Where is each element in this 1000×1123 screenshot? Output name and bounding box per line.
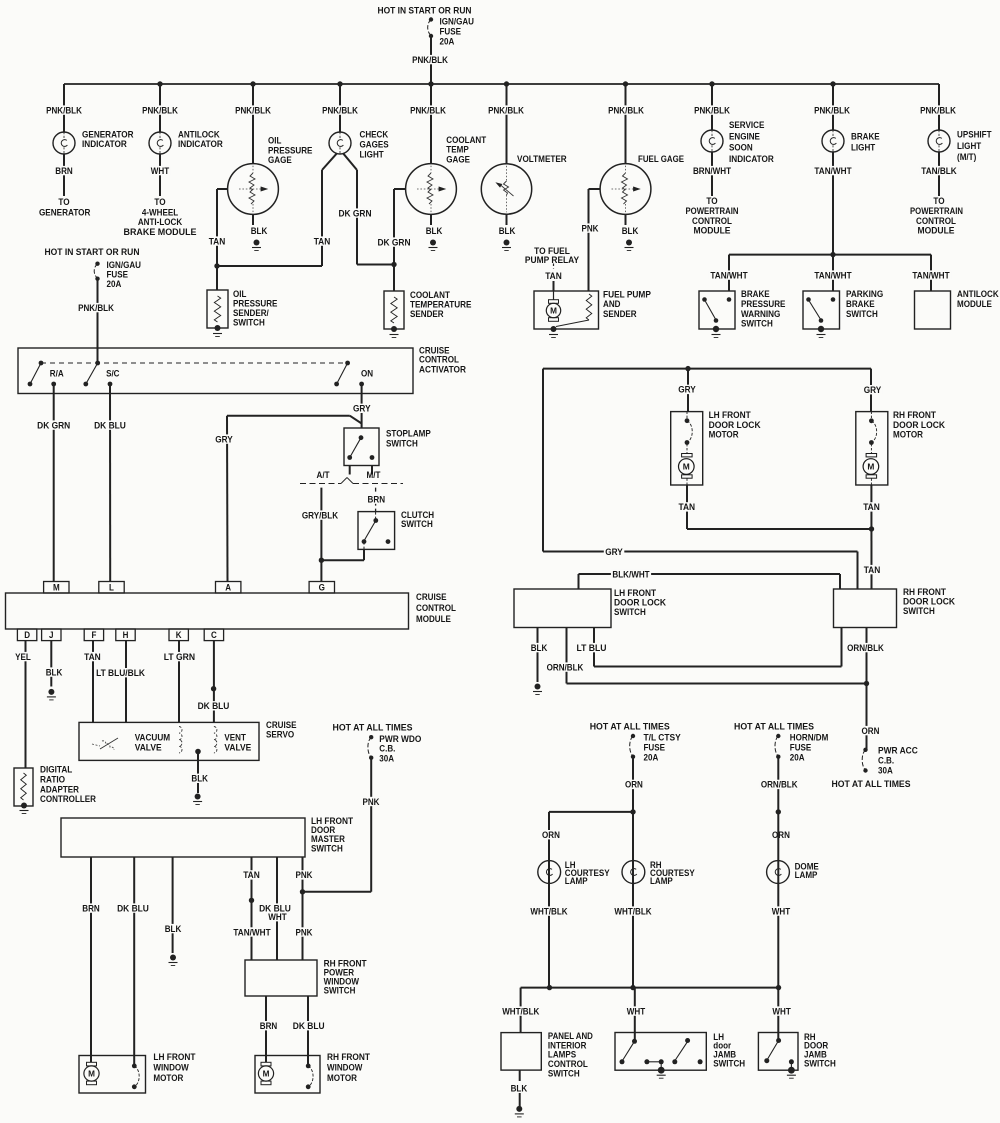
- svg-text:VALVE: VALVE: [224, 742, 251, 753]
- svg-text:WHT/BLK: WHT/BLK: [502, 1006, 539, 1017]
- svg-text:ORN: ORN: [625, 780, 643, 791]
- svg-text:ORN: ORN: [772, 830, 790, 841]
- svg-text:TAN/WHT: TAN/WHT: [814, 270, 851, 281]
- svg-text:SWITCH: SWITCH: [386, 438, 418, 449]
- svg-text:ORN/BLK: ORN/BLK: [761, 780, 798, 791]
- svg-text:FUEL GAGE: FUEL GAGE: [638, 154, 684, 165]
- svg-text:PNK/BLK: PNK/BLK: [814, 105, 850, 116]
- svg-text:20A: 20A: [107, 279, 122, 290]
- svg-text:VALVE: VALVE: [135, 742, 162, 753]
- svg-text:MOTOR: MOTOR: [327, 1073, 357, 1084]
- svg-text:C: C: [211, 630, 217, 640]
- svg-text:MOTOR: MOTOR: [709, 430, 739, 441]
- svg-text:20A: 20A: [644, 752, 659, 763]
- svg-text:HOT IN START OR RUN: HOT IN START OR RUN: [378, 5, 472, 16]
- svg-text:BRN/WHT: BRN/WHT: [693, 166, 731, 177]
- svg-text:TAN: TAN: [314, 236, 331, 247]
- svg-text:TAN: TAN: [209, 236, 226, 247]
- svg-text:BLK: BLK: [426, 226, 443, 237]
- svg-text:CONTROL: CONTROL: [416, 603, 456, 614]
- svg-text:TAN: TAN: [84, 652, 101, 663]
- svg-text:MODULE: MODULE: [694, 226, 732, 237]
- svg-text:SWITCH: SWITCH: [233, 317, 265, 328]
- svg-text:MODULE: MODULE: [957, 299, 992, 310]
- svg-text:PNK/BLK: PNK/BLK: [412, 55, 448, 66]
- svg-text:M/T: M/T: [367, 470, 381, 481]
- svg-text:LT BLU/BLK: LT BLU/BLK: [96, 668, 145, 679]
- svg-text:LAMP: LAMP: [650, 876, 673, 887]
- svg-text:TAN/WHT: TAN/WHT: [814, 166, 851, 177]
- svg-text:SWITCH: SWITCH: [614, 607, 646, 618]
- svg-text:PNK: PNK: [296, 870, 313, 881]
- svg-text:HOT IN START OR RUN: HOT IN START OR RUN: [45, 247, 140, 258]
- svg-text:GENERATOR: GENERATOR: [39, 207, 91, 218]
- svg-text:INDICATOR: INDICATOR: [729, 154, 774, 165]
- svg-text:LIGHT: LIGHT: [851, 143, 875, 154]
- svg-text:GRY: GRY: [864, 385, 882, 396]
- svg-text:ORN: ORN: [862, 726, 880, 737]
- svg-text:G: G: [319, 583, 325, 593]
- svg-text:(M/T): (M/T): [957, 152, 976, 163]
- svg-text:GAGE: GAGE: [446, 155, 470, 166]
- svg-text:TAN/BLK: TAN/BLK: [921, 166, 956, 177]
- svg-text:DK BLU: DK BLU: [94, 420, 126, 431]
- svg-text:TAN/WHT: TAN/WHT: [912, 270, 949, 281]
- svg-text:GRY: GRY: [605, 547, 623, 558]
- svg-text:HOT AT ALL TIMES: HOT AT ALL TIMES: [734, 721, 815, 732]
- svg-text:M: M: [867, 462, 874, 472]
- svg-text:DK BLU: DK BLU: [198, 701, 230, 712]
- svg-text:HOT AT ALL TIMES: HOT AT ALL TIMES: [590, 721, 671, 732]
- svg-text:A: A: [225, 583, 231, 593]
- svg-text:WHT/BLK: WHT/BLK: [530, 906, 567, 917]
- svg-text:MOTOR: MOTOR: [893, 430, 923, 441]
- svg-text:BRN: BRN: [82, 903, 100, 914]
- svg-text:BLK: BLK: [46, 667, 63, 678]
- svg-text:M: M: [263, 1070, 270, 1079]
- svg-text:PNK/BLK: PNK/BLK: [322, 105, 358, 116]
- svg-text:SWITCH: SWITCH: [804, 1058, 836, 1069]
- svg-text:PNK/BLK: PNK/BLK: [488, 105, 524, 116]
- svg-text:MODULE: MODULE: [918, 226, 956, 237]
- svg-text:PUMP RELAY: PUMP RELAY: [525, 255, 580, 266]
- svg-text:M: M: [88, 1070, 95, 1079]
- svg-text:ORN/BLK: ORN/BLK: [847, 643, 884, 654]
- svg-text:GRY: GRY: [215, 434, 233, 445]
- svg-text:INDICATOR: INDICATOR: [82, 139, 127, 150]
- svg-text:SWITCH: SWITCH: [311, 843, 343, 854]
- svg-text:LAMP: LAMP: [795, 870, 818, 881]
- svg-text:M: M: [53, 583, 60, 593]
- svg-text:GRY/BLK: GRY/BLK: [302, 510, 338, 521]
- svg-text:PNK: PNK: [296, 927, 313, 938]
- svg-text:SENDER: SENDER: [410, 309, 444, 320]
- svg-text:MODULE: MODULE: [416, 614, 451, 625]
- svg-text:SWITCH: SWITCH: [548, 1069, 580, 1080]
- svg-text:PNK/BLK: PNK/BLK: [46, 105, 82, 116]
- svg-text:WHT/BLK: WHT/BLK: [614, 906, 651, 917]
- svg-text:TAN: TAN: [545, 271, 562, 282]
- svg-text:WHT: WHT: [151, 166, 170, 177]
- svg-text:LAMP: LAMP: [565, 876, 588, 887]
- svg-text:M: M: [683, 462, 690, 472]
- svg-text:LT GRN: LT GRN: [164, 652, 195, 663]
- svg-text:WINDOW: WINDOW: [153, 1062, 189, 1073]
- svg-text:TAN: TAN: [863, 502, 880, 513]
- svg-text:BLK: BLK: [191, 774, 208, 785]
- svg-text:WHT: WHT: [268, 912, 287, 923]
- svg-text:LT BLU: LT BLU: [577, 643, 607, 654]
- svg-text:PNK: PNK: [582, 223, 599, 234]
- svg-text:YEL: YEL: [15, 652, 31, 663]
- svg-text:D: D: [24, 630, 30, 640]
- svg-text:BLK: BLK: [499, 226, 516, 237]
- svg-text:PNK/BLK: PNK/BLK: [142, 105, 178, 116]
- svg-text:PNK/BLK: PNK/BLK: [608, 105, 644, 116]
- svg-text:SWITCH: SWITCH: [846, 309, 878, 320]
- svg-text:DK BLU: DK BLU: [293, 1021, 325, 1032]
- svg-text:PNK/BLK: PNK/BLK: [235, 105, 271, 116]
- svg-text:DK GRN: DK GRN: [338, 208, 371, 219]
- svg-text:BLK/WHT: BLK/WHT: [612, 569, 649, 580]
- svg-text:MOTOR: MOTOR: [153, 1073, 183, 1084]
- svg-text:L: L: [109, 583, 114, 593]
- svg-text:F: F: [91, 630, 96, 640]
- svg-text:VOLTMETER: VOLTMETER: [517, 154, 567, 165]
- svg-text:SOON: SOON: [729, 143, 753, 154]
- svg-text:A/T: A/T: [317, 470, 330, 481]
- svg-text:30A: 30A: [878, 765, 893, 776]
- svg-text:LIGHT: LIGHT: [360, 149, 384, 160]
- svg-text:WHT: WHT: [772, 906, 791, 917]
- svg-text:GRY: GRY: [353, 404, 371, 415]
- svg-text:DK GRN: DK GRN: [37, 420, 70, 431]
- svg-text:HOT AT ALL TIMES: HOT AT ALL TIMES: [832, 779, 912, 790]
- svg-text:K: K: [176, 630, 182, 640]
- svg-text:TAN: TAN: [864, 565, 881, 576]
- svg-text:ORN/BLK: ORN/BLK: [547, 662, 584, 673]
- svg-text:20A: 20A: [440, 36, 455, 47]
- svg-text:ON: ON: [361, 368, 373, 379]
- svg-text:20A: 20A: [790, 752, 805, 763]
- svg-text:BRN: BRN: [368, 494, 386, 505]
- svg-text:WINDOW: WINDOW: [327, 1062, 363, 1073]
- svg-text:SENDER: SENDER: [603, 309, 637, 320]
- svg-text:DK GRN: DK GRN: [377, 237, 410, 248]
- svg-text:ACTIVATOR: ACTIVATOR: [419, 365, 466, 376]
- svg-text:PNK/BLK: PNK/BLK: [410, 105, 446, 116]
- svg-text:H: H: [123, 630, 129, 640]
- svg-text:CONTROLLER: CONTROLLER: [40, 794, 96, 805]
- svg-text:WHT: WHT: [772, 1006, 791, 1017]
- svg-text:J: J: [49, 630, 54, 640]
- svg-text:BRAKE MODULE: BRAKE MODULE: [124, 227, 198, 238]
- svg-text:BLK: BLK: [165, 924, 182, 935]
- svg-text:SWITCH: SWITCH: [903, 606, 935, 617]
- svg-text:PNK/BLK: PNK/BLK: [694, 105, 730, 116]
- svg-text:INDICATOR: INDICATOR: [178, 139, 223, 150]
- svg-text:30A: 30A: [379, 753, 394, 764]
- svg-text:BRN: BRN: [55, 166, 73, 177]
- svg-text:PNK: PNK: [363, 797, 380, 808]
- svg-text:TAN: TAN: [243, 870, 260, 881]
- svg-text:ORN: ORN: [542, 830, 560, 841]
- svg-text:SWITCH: SWITCH: [741, 319, 773, 330]
- svg-text:BLK: BLK: [531, 643, 548, 654]
- svg-text:DK BLU: DK BLU: [117, 903, 149, 914]
- svg-text:LIGHT: LIGHT: [957, 141, 981, 152]
- svg-text:GRY: GRY: [678, 385, 696, 396]
- svg-text:SWITCH: SWITCH: [713, 1058, 745, 1069]
- svg-text:SERVICE: SERVICE: [729, 120, 765, 131]
- svg-text:HOT AT ALL TIMES: HOT AT ALL TIMES: [333, 723, 414, 734]
- svg-text:ENGINE: ENGINE: [729, 131, 760, 142]
- svg-text:CRUISE: CRUISE: [416, 592, 447, 603]
- svg-text:WHT: WHT: [627, 1006, 646, 1017]
- svg-text:PNK/BLK: PNK/BLK: [78, 303, 114, 314]
- svg-text:SWITCH: SWITCH: [324, 985, 356, 996]
- svg-text:SERVO: SERVO: [266, 729, 295, 740]
- svg-text:GAGE: GAGE: [268, 155, 292, 166]
- svg-text:BRAKE: BRAKE: [851, 131, 880, 142]
- svg-text:PNK/BLK: PNK/BLK: [920, 105, 956, 116]
- svg-text:SWITCH: SWITCH: [401, 519, 433, 530]
- svg-text:UPSHIFT: UPSHIFT: [957, 130, 992, 141]
- svg-text:TAN: TAN: [679, 502, 696, 513]
- svg-text:S/C: S/C: [106, 368, 119, 379]
- svg-text:BLK: BLK: [622, 226, 639, 237]
- svg-text:M: M: [550, 307, 557, 316]
- svg-text:BRN: BRN: [260, 1021, 278, 1032]
- svg-text:TAN/WHT: TAN/WHT: [233, 927, 270, 938]
- svg-text:TAN/WHT: TAN/WHT: [710, 270, 747, 281]
- svg-text:BLK: BLK: [251, 226, 268, 237]
- svg-text:R/A: R/A: [50, 368, 64, 379]
